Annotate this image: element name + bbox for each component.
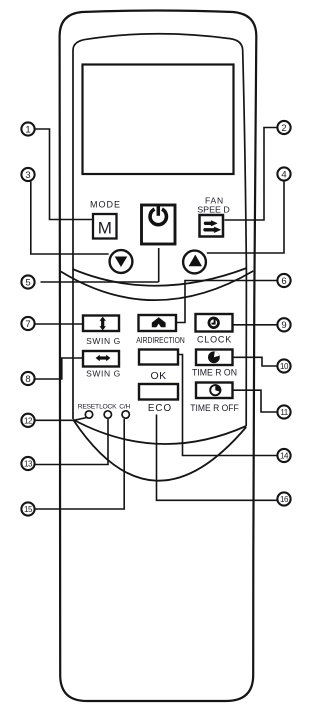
button CLOCK: [196, 314, 233, 332]
svg-text:2: 2: [281, 123, 286, 134]
node 2: [277, 121, 290, 134]
svg-text:10: 10: [280, 362, 289, 371]
node 13: [21, 457, 34, 470]
callout circles: [21, 121, 290, 516]
svg-text:6: 6: [281, 276, 286, 287]
lower band curve 2: [73, 420, 246, 481]
svg-text:TIME R ON: TIME R ON: [192, 367, 237, 377]
svg-text:M: M: [98, 219, 112, 238]
svg-text:AIRDIRECTION: AIRDIRECTION: [136, 335, 185, 345]
svg-text:ECO: ECO: [148, 403, 172, 414]
node 14: [277, 449, 290, 462]
display bezel: [73, 34, 246, 426]
leader wires: [31, 128, 284, 510]
button RESET: [85, 411, 92, 418]
wire callout 8 to SWING horizontal: [35, 358, 82, 379]
fan speed icon: [205, 221, 221, 233]
node 7: [21, 317, 34, 330]
button LOCK: [104, 411, 111, 418]
svg-text:3: 3: [25, 170, 30, 181]
wire power stem: [158, 248, 160, 282]
wire callout 11 to TIMER OFF: [234, 390, 278, 412]
button M (MODE): [93, 214, 117, 239]
node 5: [21, 275, 34, 288]
svg-text:13: 13: [24, 460, 33, 469]
button TIMER ON: [196, 350, 233, 366]
button C/H: [122, 411, 129, 418]
node 1: [21, 122, 34, 135]
node 9: [277, 318, 290, 331]
svg-text:C/H: C/H: [119, 404, 130, 411]
button FAN SPEED: [200, 215, 224, 237]
svg-text:7: 7: [25, 319, 30, 330]
button ECO: [139, 384, 178, 400]
wire callout 10 to TIMER ON: [234, 357, 278, 366]
svg-text:4: 4: [281, 169, 286, 180]
svg-text:11: 11: [280, 408, 288, 417]
node 10: [277, 359, 290, 372]
wire callout 14 to OK: [179, 355, 277, 456]
button TIMER OFF: [196, 383, 233, 399]
svg-text:9: 9: [281, 320, 286, 331]
button SWING horizontal: [83, 351, 119, 367]
display screen: [83, 65, 234, 175]
wire callout 13 to LOCK: [35, 419, 108, 465]
svg-text:CLOCK: CLOCK: [197, 335, 232, 345]
clock icon: [209, 318, 219, 328]
timer on icon: [208, 351, 220, 363]
swing vertical icon: [101, 320, 104, 328]
lower band curve 1: [73, 420, 246, 445]
wire callout 9 to CLOCK: [234, 324, 278, 326]
button OK: [139, 350, 178, 365]
svg-text:TIME R OFF: TIME R OFF: [190, 403, 239, 413]
svg-text:RESET: RESET: [78, 404, 99, 411]
svg-text:MODE: MODE: [90, 200, 121, 210]
node 4: [277, 167, 290, 180]
svg-text:1: 1: [25, 124, 30, 135]
svg-text:OK: OK: [151, 370, 167, 382]
node 11: [277, 405, 290, 418]
svg-text:15: 15: [24, 505, 33, 514]
upper band curve 2: [61, 271, 253, 300]
button SWING vertical: [83, 316, 119, 332]
timer off icon: [210, 385, 220, 395]
wire callout 6 to AIR DIRECTION: [177, 281, 277, 323]
node 6: [277, 274, 290, 287]
node 8: [21, 372, 34, 385]
swing horizontal icon: [99, 356, 108, 359]
wire callout 2 to FAN SPEED: [225, 128, 278, 221]
svg-text:SWIN G: SWIN G: [86, 336, 121, 346]
wire callout 15 to C/H: [35, 419, 124, 509]
svg-text:14: 14: [280, 452, 289, 461]
svg-text:SPEE D: SPEE D: [197, 205, 230, 214]
wire callout 16 to ECO: [157, 415, 278, 501]
node 15: [21, 502, 34, 515]
wire callout 7 to SWING vertical: [35, 323, 82, 325]
button AIR DIRECTION: [139, 315, 177, 331]
svg-text:16: 16: [280, 495, 289, 504]
air direction icon: [152, 317, 166, 327]
svg-text:LOCK: LOCK: [99, 404, 117, 411]
node 3: [21, 168, 34, 181]
wire callout 3 to adjust down: [31, 181, 109, 254]
node 16: [277, 492, 290, 505]
svg-text:8: 8: [25, 374, 30, 385]
button adjust down: [110, 250, 133, 273]
svg-text:5: 5: [25, 277, 30, 288]
button ON/OFF (power): [142, 205, 176, 244]
svg-text:SWIN G: SWIN G: [86, 369, 121, 379]
svg-text:FAN: FAN: [205, 196, 224, 206]
wire callout 1 to MODE: [35, 129, 92, 220]
wire callout 12 to RESET: [35, 418, 87, 421]
wire callout 5 to power stem: [41, 281, 159, 283]
button adjust up: [183, 251, 206, 274]
svg-text:12: 12: [24, 417, 33, 426]
power icon: [150, 209, 166, 225]
remote body: [60, 11, 257, 702]
node 12: [21, 414, 34, 427]
wire callout 4 to adjust up: [207, 181, 284, 253]
callout numbers: [24, 123, 289, 514]
upper band curve 1: [73, 268, 247, 286]
